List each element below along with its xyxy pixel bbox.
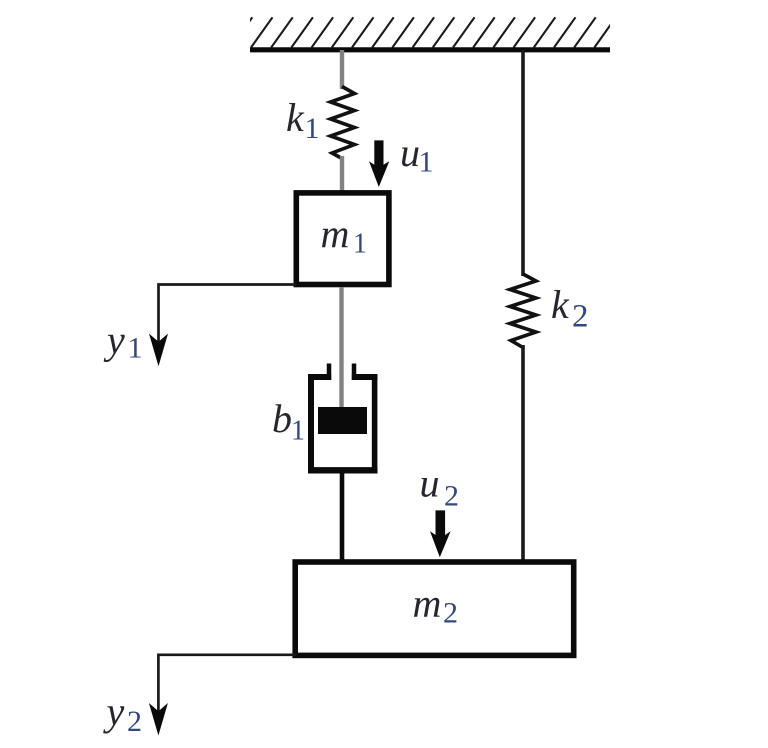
force arrow u1 bbox=[369, 140, 389, 187]
svg-text:1: 1 bbox=[353, 229, 367, 260]
damper b1 cup left wall bbox=[308, 374, 314, 474]
wire: rod ceiling to spring k2 bbox=[521, 50, 525, 276]
wire: y2 takeoff line bbox=[158, 655, 296, 720]
y1 arrowhead bbox=[149, 334, 168, 367]
svg-text:1: 1 bbox=[305, 112, 320, 145]
svg-text:k: k bbox=[551, 282, 570, 327]
wire: gray rod ceiling to spring k1 bbox=[340, 50, 344, 89]
svg-text:u: u bbox=[420, 461, 440, 506]
wire: rod damper to mass m2 bbox=[340, 470, 345, 562]
svg-text:1: 1 bbox=[291, 416, 305, 447]
damper b1 cup top right segment bbox=[352, 374, 378, 380]
svg-text:y: y bbox=[103, 689, 125, 734]
svg-text:u: u bbox=[400, 130, 420, 175]
svg-text:2: 2 bbox=[443, 597, 458, 630]
svg-text:b: b bbox=[272, 396, 292, 441]
ceiling line bbox=[250, 47, 610, 52]
y2 arrowhead bbox=[149, 703, 168, 736]
svg-text:m: m bbox=[413, 581, 442, 626]
svg-text:2: 2 bbox=[127, 705, 142, 738]
damper b1 cup right lip bbox=[352, 364, 357, 381]
mass m1 bbox=[296, 193, 389, 285]
mass m2 bbox=[295, 562, 574, 655]
svg-text:m: m bbox=[321, 211, 350, 256]
spring k2 bbox=[510, 274, 536, 348]
wire: rod spring k2 to mass m2 bbox=[521, 345, 525, 561]
svg-text:2: 2 bbox=[572, 299, 589, 335]
force arrow u2 bbox=[430, 510, 451, 557]
svg-text:y: y bbox=[103, 318, 125, 363]
svg-text:1: 1 bbox=[419, 146, 434, 179]
damper b1 piston bbox=[318, 407, 367, 434]
ceiling hatching bbox=[231, 17, 616, 47]
wire: gray rod spring k1 to mass m1 bbox=[340, 156, 344, 194]
svg-text:k: k bbox=[286, 95, 305, 140]
damper b1 cup bottom bbox=[308, 467, 378, 473]
wire: gray rod m1 to damper piston bbox=[339, 287, 343, 409]
wire: y1 takeoff line bbox=[159, 285, 297, 352]
svg-text:1: 1 bbox=[128, 332, 143, 365]
damper b1 cup top left segment bbox=[308, 374, 331, 380]
spring k1 bbox=[331, 87, 355, 159]
svg-text:2: 2 bbox=[444, 480, 459, 513]
damper b1 cup left lip bbox=[327, 364, 332, 381]
damper b1 cup right wall bbox=[372, 374, 378, 474]
